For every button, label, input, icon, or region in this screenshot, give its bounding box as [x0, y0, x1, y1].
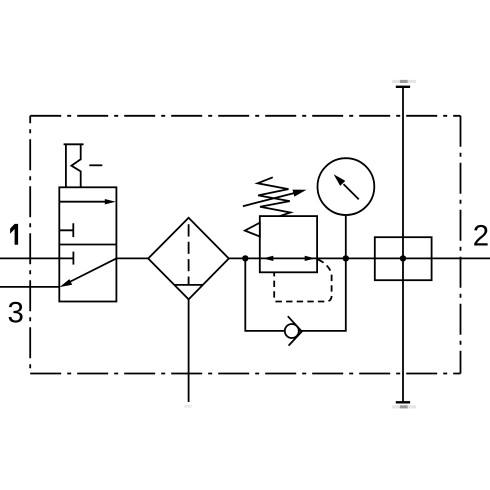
regulator R1 body [260, 216, 317, 272]
valve V1 exhaust diagonal with arrow (bottom box) [60, 258, 117, 287]
branch wire bottom end cap [396, 401, 410, 403]
regulator R1 relieving vent triangle [245, 223, 260, 237]
filter F1 body (diamond with water separator) [148, 218, 229, 300]
valve V1 blocked port T bar (bottom box) [72, 252, 74, 265]
filter F1 drain connection marker (grey) [184, 405, 192, 408]
wire port 3 to valve V1 [0, 286, 59, 288]
valve V1 manual detent actuator [64, 144, 84, 187]
node junction J1 [242, 255, 248, 261]
enclosure border right edge (dash-dot) [460, 116, 462, 374]
enclosure border top edge (dash-dot) [30, 115, 460, 117]
valve V1 body (3/2 shut-off valve) [59, 187, 116, 301]
wire valve V1 to filter F1 [116, 257, 148, 259]
valve V1 actuator dash [89, 164, 102, 166]
branch wire vertical [402, 87, 404, 402]
node junction J2 (gauge branch) [343, 255, 349, 261]
check valve C1 ball [285, 324, 299, 338]
branching module B1 body [375, 237, 432, 280]
filter F1 sump line [174, 284, 203, 286]
regulator R1 adjustment arrow [243, 190, 307, 207]
gauge G1 dial [318, 158, 375, 215]
valve V1 flow arrow (top box, pass) [59, 199, 116, 204]
branch bottom connection marker (grey) [392, 405, 416, 408]
gauge G1 stem [345, 215, 347, 258]
port 2 label [474, 225, 487, 246]
enclosure border bottom edge (dash-dot) [30, 373, 460, 375]
filter F1 element (dashed) [188, 224, 190, 285]
enclosure border left edge (dash-dot) [29, 116, 31, 374]
regulator R1 flow arrows (adjustable) [263, 256, 316, 261]
branch wire top end cap [396, 86, 410, 88]
check valve bypass wire (left + bottom + right) [245, 258, 345, 331]
valve V1 position divider [59, 244, 116, 246]
wire port 1 to valve V1 (with blocked stub into box) [0, 257, 73, 259]
port 3 label [9, 302, 23, 323]
node junction J3 (branch module center) [400, 255, 406, 261]
regulator R1 pilot line (dashed feedback) [274, 260, 331, 302]
gauge G1 needle [334, 174, 359, 199]
branch top connection marker (grey) [392, 80, 416, 83]
regulator R1 adjustment spring (zigzag) [258, 177, 291, 216]
filter F1 drain line [188, 299, 190, 402]
valve V1 blocked port T (top box) [59, 223, 73, 237]
main wire filter to port 2 [229, 257, 490, 259]
port 1 label [10, 224, 18, 245]
check valve C1 seat chevron [288, 316, 302, 345]
